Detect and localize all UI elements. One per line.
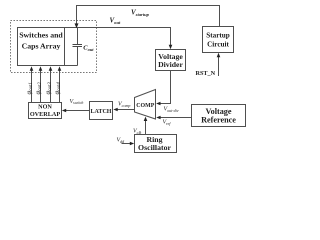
wire Vout node (top horizontal) xyxy=(65,27,172,29)
svg-text:Vdd: Vdd xyxy=(117,138,126,144)
svg-text:Vclk: Vclk xyxy=(133,129,142,135)
svg-text:Caps Array: Caps Array xyxy=(22,42,61,51)
latch block xyxy=(90,102,113,120)
phase wire 2 xyxy=(40,69,42,103)
svg-text:Switches and: Switches and xyxy=(19,31,63,40)
comparator COMP (trapezoid) xyxy=(135,90,156,120)
svg-text:Vout-div: Vout-div xyxy=(164,107,179,113)
wire Vout-div (voltage divider to comp) xyxy=(160,71,171,104)
wire Vclk (ring oscillator to comp) xyxy=(145,120,147,134)
startup circuit block xyxy=(203,27,234,53)
wire RST_N into startup circuit xyxy=(218,56,220,76)
svg-text:Vref: Vref xyxy=(163,120,172,126)
phase wire 1 xyxy=(31,69,33,103)
dashed boundary box (charge pump block) xyxy=(11,21,97,73)
voltage reference block xyxy=(192,105,246,127)
ring oscillator block xyxy=(135,135,177,153)
wire Vcomp (comp to latch) xyxy=(117,109,134,111)
switches and caps array block xyxy=(18,28,65,66)
wire Vout into voltage divider xyxy=(170,28,172,46)
svg-text:COMP: COMP xyxy=(136,103,154,109)
svg-text:Reference: Reference xyxy=(201,116,236,125)
arrowhead into caps array top xyxy=(75,23,79,28)
svg-text:LATCH: LATCH xyxy=(91,109,112,115)
svg-text:RST_N: RST_N xyxy=(196,70,216,77)
svg-text:NON: NON xyxy=(38,104,52,111)
phase wire 4 xyxy=(59,69,61,103)
wire Vswitch (latch to non-overlap) xyxy=(66,110,90,112)
svg-text:Divider: Divider xyxy=(158,60,183,69)
svg-text:OVERLAP: OVERLAP xyxy=(30,111,60,118)
svg-text:Vswitch: Vswitch xyxy=(70,99,84,105)
wire Vref (voltage reference to comp) xyxy=(160,117,191,119)
svg-text:Oscillator: Oscillator xyxy=(138,143,171,152)
wire Vstartup (top) xyxy=(77,6,220,28)
voltage divider block xyxy=(156,50,186,71)
non-overlap clock generator block xyxy=(29,103,62,119)
svg-text:Startup: Startup xyxy=(206,32,230,40)
wire Vdd into ring oscillator xyxy=(122,143,131,145)
svg-text:Vcomp: Vcomp xyxy=(118,102,130,108)
capacitor Cout branch xyxy=(65,28,83,66)
svg-text:Circuit: Circuit xyxy=(207,40,229,48)
phase wire 3 xyxy=(50,69,52,103)
svg-text:Voltage: Voltage xyxy=(205,107,231,116)
